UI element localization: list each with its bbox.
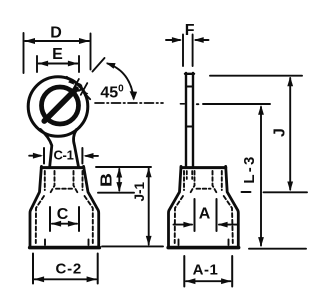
arrowhead E right — [68, 61, 78, 67]
arrowhead J-1 bottom — [146, 236, 152, 246]
arrowhead A right — [218, 222, 228, 228]
dimension C-1 tick right — [81, 148, 83, 164]
dimension E tick left — [36, 56, 38, 72]
dashed barrel contour right (side) — [224, 196, 233, 243]
svg-text:J: J — [272, 128, 289, 137]
dashed wire stop (side) — [197, 188, 211, 190]
arrowhead J bottom — [287, 182, 293, 192]
dimension C-1 left arrow line — [29, 155, 40, 157]
svg-text:C-1: C-1 — [53, 148, 73, 163]
dimension C extension right — [78, 207, 80, 231]
arrowhead B bottom — [116, 182, 122, 192]
dimension A left arrow line — [174, 224, 193, 226]
ring inner circle — [42, 87, 79, 124]
dashed wire line left (sleeve front) — [51, 171, 55, 193]
dimension C-2 extension right — [97, 254, 99, 284]
dimension D extension left — [23, 33, 25, 73]
ring stock arrow NW line — [67, 77, 72, 82]
arrowhead 45 arc top — [106, 63, 116, 69]
barrel bottom tick right (front) — [88, 240, 90, 246]
dashed inner wall right (sleeve side) — [221, 171, 223, 190]
sleeve right side and flare (front view) — [84, 166, 99, 246]
dashed inner wall left (sleeve front) — [44, 171, 46, 190]
arrowhead C-2 left — [34, 276, 44, 282]
ring slash — [44, 89, 76, 121]
sleeve top edge (front view) — [41, 166, 83, 169]
dimension A-1 arrow line — [186, 280, 231, 282]
dimension D line — [25, 40, 89, 42]
dimension C-2 arrow line — [35, 278, 97, 280]
svg-text:A: A — [199, 206, 211, 223]
dimension J-1 bottom extension — [102, 245, 163, 247]
blade hole tick upper — [187, 86, 192, 88]
sleeve left side and flare (side view) — [169, 166, 182, 246]
dimension L-3 top extension — [203, 103, 270, 105]
ring stock circle mark — [75, 84, 82, 91]
dimension B top extension — [96, 166, 151, 168]
dashed inner wall right (sleeve front) — [82, 171, 84, 190]
sleeve left side and flare (front view) — [30, 166, 41, 246]
dimension C-1 right arrow line — [86, 155, 98, 157]
dimension F right arrow line — [196, 39, 209, 41]
dashed wire line right (sleeve front) — [74, 171, 78, 193]
arrowhead C right — [68, 221, 78, 227]
arrowhead J top — [287, 77, 293, 87]
dimension J arrow line — [289, 78, 291, 190]
dimension E tick right — [78, 56, 80, 72]
svg-text:A-1: A-1 — [193, 261, 219, 278]
sleeve top edge (side view) — [181, 166, 226, 169]
ring stock tick lower — [81, 83, 88, 95]
arrowhead F right — [194, 37, 204, 43]
barrel bottom tick left (front) — [44, 240, 46, 246]
dashed barrel contour right (front) — [85, 196, 93, 243]
arrowhead C-1 right — [83, 153, 93, 159]
arrowhead L-3 top — [258, 105, 264, 115]
centerline dash-dot — [95, 102, 163, 104]
barrel bottom bar (front view) — [30, 246, 100, 250]
svg-text:C-2: C-2 — [56, 260, 83, 277]
arrowhead 45 arc bottom — [130, 91, 138, 100]
dimension C extension left — [49, 207, 51, 231]
arrowhead D left — [25, 38, 36, 44]
blade top cap — [185, 73, 194, 75]
45 degree reference diagonal — [93, 58, 105, 72]
ring stock tick upper — [72, 79, 79, 92]
sleeve right side and flare (side view) — [226, 166, 239, 246]
neck left — [41, 130, 52, 167]
ring stock arrow SE line — [86, 94, 91, 99]
dimension A extension left — [194, 199, 196, 231]
dimension A-1 extension left — [183, 256, 185, 287]
blade right line (side view) — [192, 73, 194, 167]
arrowhead ring stock SE — [82, 91, 88, 97]
dimension A-1 extension right — [231, 256, 233, 287]
dimension J bottom extension — [264, 191, 308, 193]
svg-text:J-1: J-1 — [132, 181, 147, 201]
45 degree arc — [108, 64, 134, 99]
svg-text:B: B — [99, 173, 116, 187]
arrowhead D right — [79, 38, 90, 44]
blade hole tick lower — [187, 126, 192, 128]
dimension C-2 extension left — [32, 254, 34, 284]
barrel bottom tick right (side) — [228, 240, 230, 246]
dashed wire line right (sleeve side) — [213, 171, 217, 193]
arrowhead A-1 right — [221, 278, 231, 284]
arrowhead A-1 left — [185, 278, 195, 284]
dimension C arrow line — [52, 223, 77, 225]
arrowhead E left — [38, 61, 48, 67]
dimension F extension right — [192, 35, 194, 67]
dimension B bottom extension — [98, 192, 134, 194]
dimension A extension right — [216, 199, 218, 231]
dimension F left arrow line — [166, 39, 180, 41]
dashed barrel contour left (front) — [36, 196, 44, 243]
dimension E line — [39, 63, 78, 65]
ring outer circle — [28, 77, 88, 137]
barrel bottom tick left (side) — [178, 240, 180, 246]
dashed blade continuation left (side) — [186, 171, 188, 179]
svg-text:C: C — [57, 206, 69, 223]
dimension J top extension — [210, 75, 302, 77]
dimension A right arrow line — [219, 224, 238, 226]
neck right — [74, 130, 79, 167]
dimension J-1 arrow line — [148, 169, 150, 245]
blade left line (side view) — [185, 73, 187, 167]
arrowhead F left — [172, 37, 182, 43]
arrowhead ring stock NW — [68, 79, 74, 85]
arrowhead B top — [116, 168, 122, 178]
dashed wire stop (front) — [56, 188, 72, 190]
dimension F extension left — [182, 35, 184, 67]
dimension B arrow line — [118, 169, 120, 191]
arrowhead C-1 left — [33, 153, 43, 159]
svg-text:L-3: L-3 — [241, 154, 258, 183]
barrel bottom bar (side view) — [168, 246, 238, 250]
arrowhead A left — [183, 222, 193, 228]
dimension D extension right — [90, 34, 92, 70]
dashed wire line left (sleeve side) — [191, 171, 195, 193]
arrowhead C left — [51, 221, 61, 227]
arrowhead C-2 right — [87, 276, 97, 282]
centerline dot right of blade — [197, 103, 199, 105]
dimension C-1 tick left — [43, 148, 45, 164]
svg-text:F: F — [185, 22, 195, 39]
centerline dash at blade — [181, 103, 185, 105]
dimension L-3 arrow line — [260, 107, 262, 246]
dashed inner wall left (sleeve side) — [183, 171, 185, 190]
svg-text:D: D — [50, 25, 62, 42]
svg-text:E: E — [52, 46, 63, 63]
arrowhead L-3 bottom — [258, 237, 264, 247]
arrowhead J-1 top — [146, 168, 152, 178]
dashed barrel contour left (side) — [175, 196, 183, 243]
dimension L-3 bottom extension — [249, 248, 306, 250]
dashed blade continuation right (side) — [191, 171, 193, 179]
dimension J bottom extension dash — [242, 191, 251, 193]
